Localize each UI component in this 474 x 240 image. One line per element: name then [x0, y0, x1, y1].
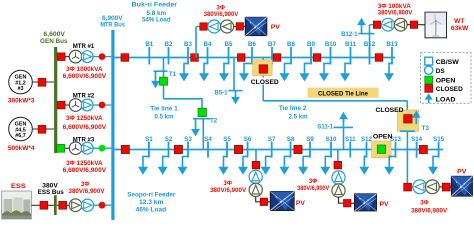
PV2 drop wire at S6: [255, 150, 257, 162]
load branch at x=184 on Buk-ri feeder: [179, 63, 189, 81]
PV4 converter DS circle (grid side): [413, 180, 427, 194]
switch tick S3: [184, 136, 192, 158]
load arrow below T2 bar: [191, 119, 200, 137]
svg-text:CLOSED Tie Line: CLOSED Tie Line: [318, 91, 368, 98]
svg-text:380V/6,900V: 380V/6,900V: [69, 188, 106, 195]
svg-text:T1: T1: [169, 71, 177, 78]
svg-text:S11: S11: [345, 136, 356, 143]
MTR bus 6,900V (blue vertical bar): [111, 30, 114, 220]
sectionalizer tick B11: [345, 41, 357, 64]
wire: [244, 25, 246, 27]
legend CB/SW symbol: [425, 57, 433, 65]
PV1 converter DS circle (grid side): [208, 20, 221, 33]
svg-text:#6,7: #6,7: [15, 133, 26, 139]
switch tick S12: [361, 136, 373, 158]
svg-text:B6: B6: [248, 41, 256, 48]
wire: [48, 204, 54, 206]
switch tick S7: [268, 136, 276, 158]
load branch at x=243 on Seopo-ri feeder: [238, 156, 248, 174]
ESS bus bar (dark green): [54, 195, 57, 215]
svg-text:380V/6,900V: 380V/6,900V: [204, 11, 239, 18]
wire: [234, 26, 237, 28]
PV4 converter circle (source side): [426, 180, 440, 194]
tie line 2 horizontal wire: [263, 100, 407, 102]
B12-1 riser to WT: [369, 25, 371, 58]
connection dot MTR #1: [99, 53, 106, 60]
wire DS to MTR bus: [93, 147, 111, 149]
load arrow below T1 bar: [151, 71, 160, 88]
svg-text:380V/6,900V: 380V/6,900V: [378, 10, 413, 17]
Buk-ri feeder main wire: [115, 57, 396, 59]
wire: [407, 24, 410, 26]
sectionalizer tick B7: [268, 41, 276, 64]
svg-text:B1: B1: [145, 41, 153, 48]
svg-text:B3: B3: [184, 41, 192, 48]
sectionalizer tick B13: [386, 41, 398, 64]
closed breaker (red) generator: [38, 125, 46, 133]
svg-text:MTR Bus: MTR Bus: [100, 21, 125, 28]
PV4 solar panel image: [451, 176, 472, 196]
closed breaker ESS bus side: [59, 201, 67, 209]
svg-text:2.5 km: 2.5 km: [289, 114, 308, 121]
legend box: [421, 53, 472, 104]
load arrow up at S11-1: [339, 112, 348, 122]
DS circle MTR #1: [81, 51, 93, 63]
generator GEN #1,2 #3 circle: [9, 70, 33, 94]
svg-text:PV: PV: [296, 200, 306, 207]
svg-text:B5: B5: [225, 41, 233, 48]
WT converter DS circle (grid side): [382, 18, 395, 31]
switch tick S10: [325, 136, 337, 158]
svg-text:B2: B2: [165, 41, 173, 48]
CLOSED Tie Line banner: [308, 88, 379, 98]
load branch at x=182.5 on Seopo-ri feeder: [178, 156, 189, 174]
closed breaker (red) MTR #1: [58, 53, 66, 61]
sectionalizer tick B6: [248, 41, 256, 64]
svg-text:3Φ: 3Φ: [309, 178, 318, 185]
closed breaker PV3 source side: [344, 200, 351, 207]
load branch at x=324 on Buk-ri feeder: [319, 63, 331, 81]
load branch at x=284.4 on Seopo-ri feeder: [279, 156, 290, 174]
wire PV2 elbow: [256, 197, 261, 202]
tie line 1 down wire to T2: [201, 98, 203, 109]
wire: [381, 24, 382, 26]
closed breaker WT source side: [410, 21, 417, 28]
closed switch (red) on Seopo-ri feeder #4: [294, 145, 302, 153]
switch tick S5: [223, 136, 231, 158]
svg-text:3Φ: 3Φ: [420, 200, 429, 207]
svg-text:WT: WT: [454, 18, 464, 25]
svg-text:S6: S6: [244, 136, 252, 143]
wire: [196, 26, 200, 28]
load branch at x=389 on Buk-ri feeder: [384, 63, 394, 81]
T1 sub-bus bar: [154, 70, 168, 72]
svg-text:S14: S14: [411, 136, 423, 143]
closed tie switch housing at B7 (yellow): [253, 60, 272, 76]
svg-text:380V/6,900V: 380V/6,900V: [210, 187, 247, 194]
open breaker (green) MTR #3: [57, 144, 65, 152]
wire: [57, 204, 59, 206]
PV3 converter circle (source side): [332, 184, 345, 197]
PV3 solar panel image: [355, 194, 377, 211]
svg-text:CLOSED: CLOSED: [376, 107, 404, 114]
svg-text:S3: S3: [184, 136, 192, 143]
closed breaker (red) on Buk-ri feeder #5: [313, 54, 321, 62]
wire: [351, 202, 355, 204]
svg-text:CLOSED: CLOSED: [436, 86, 463, 93]
svg-text:OPEN: OPEN: [436, 78, 456, 85]
load branch at x=345 on Buk-ri feeder: [340, 63, 351, 81]
WT converter circle (source side): [394, 18, 407, 31]
wire generator to GEN bus: [32, 81, 54, 83]
sectionalizer tick B2: [165, 41, 173, 64]
svg-text:500kW*4: 500kW*4: [8, 145, 35, 152]
svg-text:MTR #3: MTR #3: [73, 137, 95, 144]
sectionalizer tick B4: [204, 41, 212, 64]
WT wind turbine image box: [425, 12, 447, 38]
closed breaker PV1 source side: [236, 23, 243, 30]
B5-1 bar: [229, 90, 243, 92]
switch tick S1: [145, 136, 153, 158]
open switch T1 (green): [160, 77, 168, 85]
closed breaker (red) generator: [38, 78, 46, 86]
tie line 1 horizontal wire: [164, 98, 203, 100]
ESS converter DS circle (grid side): [81, 199, 93, 211]
wire GEN bus to MTR #3: [57, 147, 70, 149]
wire: [67, 204, 70, 206]
svg-text:63kW: 63kW: [451, 25, 469, 32]
ESS converter circle (battery side): [69, 199, 82, 212]
load branch at x=303.1 on Seopo-ri feeder: [298, 156, 310, 174]
wire T3 to Seopo-ri feeder and PV3: [406, 131, 408, 183]
CLOSED label under B7 switch: [250, 77, 280, 84]
T2 sub-bus bar: [193, 118, 211, 120]
closed breaker PV1 grid side: [200, 23, 207, 30]
svg-text:46% Load: 46% Load: [136, 206, 167, 213]
closed tie switch at B7 (red): [259, 65, 267, 73]
svg-text:ESS Bus: ESS Bus: [38, 189, 64, 196]
S11-1 bar: [334, 126, 354, 128]
closed breaker (red) MTR #2: [58, 101, 66, 109]
switch tick S14: [411, 136, 423, 158]
wire DS to MTR bus: [93, 56, 111, 58]
closed breaker (red) on Buk-ri feeder #2: [191, 54, 199, 62]
svg-text:ESS: ESS: [11, 183, 27, 190]
sectionalizer tick B8: [287, 41, 295, 64]
wire GEN bus to MTR #1: [57, 56, 70, 58]
closed switch (red) on Seopo-ri feeder #5: [419, 145, 427, 153]
wire B12-1 to WT breaker: [370, 24, 374, 26]
svg-text:PV: PV: [271, 24, 281, 31]
svg-text:MTR #2: MTR #2: [73, 92, 95, 99]
wire DS to MTR bus: [93, 104, 111, 106]
switch tick S6: [244, 136, 252, 158]
svg-text:DS: DS: [436, 68, 446, 75]
wire: [268, 201, 271, 203]
load branch at x=265.6 on Seopo-ri feeder: [261, 156, 272, 174]
closed breaker (red) on Buk-ri feeder #4: [273, 54, 281, 62]
svg-text:B10: B10: [325, 41, 337, 48]
PV3 converter DS circle (grid side): [332, 171, 345, 184]
closed breaker PV2 grid side: [252, 161, 260, 169]
svg-text:PV: PV: [380, 201, 390, 208]
PV2 converter DS circle (grid side): [249, 170, 262, 183]
svg-text:S15: S15: [433, 136, 445, 143]
svg-text:S7: S7: [268, 136, 276, 143]
svg-text:6,600V/6,900V: 6,600V/6,900V: [63, 167, 107, 174]
PV2 solar panel image: [270, 192, 294, 211]
closed breaker (red) on Buk-ri feeder #3: [237, 54, 245, 62]
svg-text:Tie line 2: Tie line 2: [279, 105, 307, 112]
svg-text:CLOSED: CLOSED: [251, 79, 279, 86]
closed switch (red) on Seopo-ri feeder #2: [174, 145, 182, 153]
load arrow up at B12-1: [357, 18, 366, 34]
svg-text:6,600V/6,900V: 6,600V/6,900V: [63, 124, 107, 131]
svg-text:Tie line 1: Tie line 1: [150, 106, 178, 113]
switch tick S15: [433, 136, 445, 158]
svg-text:S4: S4: [204, 136, 212, 143]
svg-text:6,600V: 6,600V: [43, 31, 65, 38]
closed breaker PV3 grid side: [334, 161, 342, 169]
svg-text:MTR #1: MTR #1: [73, 43, 95, 50]
wire: [439, 186, 442, 188]
DS circle MTR #3: [81, 142, 93, 154]
S11-1 riser: [343, 120, 345, 150]
svg-text:Seopo-ri Feeder: Seopo-ri Feeder: [127, 192, 175, 199]
svg-text:B4: B4: [204, 41, 212, 48]
wire GEN bus to MTR #2: [57, 104, 70, 106]
transformer MTR #2 motor circle: [69, 99, 82, 112]
transformer MTR #3 motor circle: [69, 142, 82, 155]
svg-text:380V/6,900V: 380V/6,900V: [411, 207, 448, 214]
switch tick S13: [390, 136, 402, 158]
svg-text:T2: T2: [210, 117, 218, 124]
svg-text:6,600V/6,900V: 6,600V/6,900V: [63, 73, 107, 80]
generator GEN #4,5 #6,7 circle: [9, 117, 33, 141]
svg-text:OPEN: OPEN: [373, 134, 393, 141]
load branch at x=204 on Buk-ri feeder: [199, 63, 209, 81]
svg-text:B9: B9: [307, 41, 315, 48]
switch tick S11: [345, 136, 356, 158]
svg-text:B13: B13: [386, 41, 398, 48]
closed breaker (red) on Buk-ri feeder #6: [375, 54, 383, 62]
tie line 2 riser at B7: [262, 58, 264, 101]
svg-text:3Φ: 3Φ: [81, 181, 90, 188]
legend CLOSED symbol: [425, 85, 433, 93]
closed breaker (red) on Buk-ri feeder #1: [121, 54, 129, 62]
wire: [450, 186, 451, 188]
svg-text:S2: S2: [165, 136, 173, 143]
switch tick S9: [306, 136, 314, 158]
svg-text:300kW*3: 300kW*3: [8, 98, 35, 105]
DS circle MTR #2: [81, 99, 93, 111]
switch tick S8: [287, 136, 295, 158]
load branch at x=364.3 on Seopo-ri feeder: [359, 156, 369, 174]
closed switch (red) on Seopo-ri feeder #3: [234, 145, 242, 153]
svg-text:12.3 km: 12.3 km: [139, 199, 164, 206]
svg-text:LOAD: LOAD: [436, 96, 456, 103]
svg-text:380V/6,900V: 380V/6,900V: [297, 185, 330, 192]
svg-text:S9: S9: [306, 136, 314, 143]
switch tick S2: [165, 136, 173, 158]
closed switch (red) on Seopo-ri feeder #1: [121, 145, 129, 153]
load branch at x=143 on Seopo-ri feeder: [138, 156, 149, 174]
load branch at x=244 on Buk-ri feeder: [239, 63, 252, 81]
wire T2 to Seopo-ri feeder: [202, 119, 204, 150]
wire ESS to MTR bus: [94, 204, 112, 206]
svg-text:Buk-ri Feeder: Buk-ri Feeder: [132, 1, 178, 8]
PV1 solar panel image: [245, 17, 266, 35]
svg-text:S8: S8: [287, 136, 295, 143]
wire PV3 elbow: [339, 197, 344, 203]
T3 switch housing (yellow): [398, 110, 419, 131]
load arrow below B5-1: [231, 91, 240, 105]
legend DS symbol: [425, 66, 433, 74]
svg-text:B8: B8: [287, 41, 295, 48]
svg-text:S1: S1: [145, 136, 153, 143]
open switch (green) on Seopo-ri feeder: [377, 145, 385, 153]
load branch at x=162.7 on Seopo-ri feeder: [158, 156, 169, 174]
svg-text:#3: #3: [18, 86, 24, 92]
svg-text:0.5 km: 0.5 km: [155, 114, 174, 121]
PV2 converter circle (source side): [249, 183, 262, 196]
PV riser at B3: [195, 27, 197, 58]
svg-text:B11: B11: [345, 41, 357, 48]
load branch at x=433 on Seopo-ri feeder: [428, 156, 439, 174]
load arrow up at T3: [412, 110, 421, 124]
svg-text:B12-1: B12-1: [341, 32, 358, 38]
load branch at x=223.5 on Seopo-ri feeder: [219, 156, 229, 174]
svg-text:T3: T3: [422, 125, 430, 132]
wire generator to GEN bus: [32, 128, 54, 130]
legend LOAD symbol: [425, 93, 433, 103]
load branch at x=304.5 on Buk-ri feeder: [300, 63, 312, 81]
open switch T2 (green): [198, 108, 206, 116]
closed breaker PV4 grid side: [404, 183, 412, 191]
wire: [418, 24, 425, 26]
tie line 1 riser from feeder: [163, 58, 165, 99]
svg-text:3Φ 1250kVA: 3Φ 1250kVA: [66, 115, 103, 122]
transformer MTR #1 motor circle: [69, 50, 82, 63]
load branch at x=325.3 on Seopo-ri feeder: [320, 156, 331, 174]
PV3 drop wire: [337, 150, 339, 162]
load branch at x=224 on Buk-ri feeder: [219, 63, 229, 81]
svg-text:B7: B7: [268, 41, 276, 48]
svg-text:S11-1: S11-1: [317, 125, 333, 131]
closed breaker PV4 source side: [442, 183, 450, 191]
B5-1 riser: [233, 58, 235, 91]
load branch at x=389.2 on Seopo-ri feeder: [384, 156, 395, 174]
open switch housing between S12-S13 (yellow): [372, 141, 391, 158]
closed tie switch T3 (red): [404, 115, 412, 123]
sectionalizer tick B3: [184, 41, 192, 64]
tie line 2 down wire to T3: [406, 101, 408, 110]
svg-text:CB/SW: CB/SW: [436, 59, 460, 66]
svg-text:S5: S5: [223, 136, 231, 143]
svg-text:S10: S10: [325, 136, 337, 143]
legend OPEN symbol: [425, 76, 433, 84]
wire ESS photo to breaker: [32, 204, 41, 206]
PV1 converter circle (source side): [221, 20, 234, 33]
Seopo-ri feeder main wire: [115, 149, 444, 151]
closed breaker WT grid side: [373, 21, 380, 28]
switch tick S4: [204, 136, 212, 158]
connection dot MTR #2: [99, 102, 106, 109]
svg-text:B5-1: B5-1: [214, 90, 228, 96]
wire: [412, 186, 413, 188]
closed breaker PV2 source side: [260, 198, 267, 205]
sectionalizer tick B1: [145, 41, 153, 64]
svg-text:S12: S12: [361, 136, 373, 143]
B12-1 bar: [359, 33, 375, 35]
GEN bus 6,600V (dark green vertical bar): [54, 47, 57, 153]
sectionalizer tick B12: [364, 41, 376, 64]
svg-text:PV: PV: [457, 169, 467, 176]
load branch at x=284.5 on Buk-ri feeder: [280, 63, 292, 81]
svg-text:54% Load: 54% Load: [142, 17, 171, 24]
sectionalizer tick B9: [307, 41, 315, 64]
closed breaker ESS battery side: [40, 201, 48, 209]
connection dot MTR #3: [99, 145, 106, 152]
sectionalizer tick B10: [325, 41, 337, 64]
ESS photo image: [2, 191, 32, 219]
connection dot ESS: [99, 202, 106, 209]
svg-text:GEN Bus: GEN Bus: [40, 38, 68, 45]
sectionalizer tick B5: [225, 41, 233, 64]
T3 sub-bus bar: [400, 130, 415, 132]
